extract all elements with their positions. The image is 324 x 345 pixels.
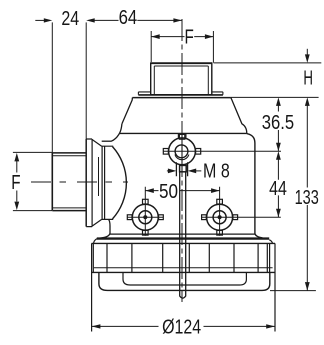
- boss center ext line: [163, 150, 281, 152]
- body top seam: [120, 132, 247, 134]
- body top ext line: [231, 96, 319, 98]
- side port: [52, 153, 86, 211]
- dim F left: [11, 152, 52, 210]
- top port plug: [151, 62, 212, 94]
- body bottom seam: [110, 233, 255, 235]
- svg-text:M 8: M 8: [203, 160, 230, 182]
- label M 8: [167, 160, 230, 182]
- side port flange: [86, 139, 113, 227]
- svg-text:36.5: 36.5: [262, 112, 294, 134]
- top boss U-M8: [163, 134, 200, 177]
- dim 64: [95, 7, 182, 29]
- bottom boss right: [202, 199, 238, 235]
- dim 44: [269, 151, 287, 217]
- dim 24: [35, 8, 94, 153]
- svg-text:F: F: [11, 172, 20, 194]
- cover top plate: [111, 98, 247, 142]
- body left edge lower: [97, 220, 110, 239]
- svg-text:133: 133: [295, 187, 319, 209]
- centerline vertical: [181, 19, 183, 302]
- ring ribbed nut: [92, 243, 275, 272]
- dim F top: [151, 27, 213, 63]
- bottom boss left: [127, 199, 163, 235]
- svg-text:F: F: [185, 27, 194, 49]
- svg-text:Ø124: Ø124: [162, 316, 201, 338]
- svg-text:44: 44: [269, 178, 287, 200]
- svg-text:24: 24: [61, 8, 79, 30]
- collar step under port: [138, 92, 223, 95]
- boss bottom ext line: [202, 216, 281, 218]
- dim H: [214, 49, 322, 90]
- dim 36.5: [262, 97, 294, 151]
- shoulder band: [97, 237, 269, 239]
- bottom cap: [99, 272, 270, 290]
- M8 stud lines: [180, 172, 186, 298]
- dim dia124: [92, 243, 275, 338]
- body left edge upper: [102, 140, 112, 142]
- cap bottom ext line: [270, 290, 316, 292]
- body bulge arc: [113, 147, 127, 219]
- body right edge: [247, 134, 263, 238]
- svg-text:50: 50: [159, 181, 178, 203]
- dim 133: [295, 97, 319, 290]
- centerline horizontal: [31, 181, 128, 183]
- boss vertical cross lines: [145, 199, 219, 236]
- dim 50: [145, 181, 219, 203]
- svg-text:64: 64: [119, 7, 138, 29]
- svg-text:H: H: [303, 68, 313, 90]
